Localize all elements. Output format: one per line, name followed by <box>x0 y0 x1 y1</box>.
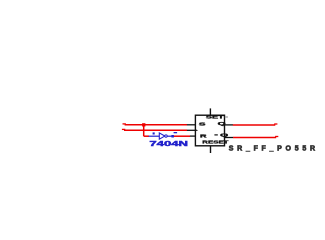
svg-text:R: R <box>200 134 207 139</box>
wire input B left end hook <box>122 128 125 130</box>
pin stub middle <box>187 129 196 131</box>
inverter U1 bubble <box>165 135 167 137</box>
junction dot A-branch <box>142 123 145 126</box>
pin stub S <box>187 124 196 126</box>
wire inverter output to R pin <box>174 135 190 137</box>
clock-style tick at middle pin <box>195 129 198 131</box>
wire branch horizontal to inverter input <box>144 135 149 137</box>
wire input B horizontal to middle pin <box>124 129 187 131</box>
wire output Q <box>233 124 275 126</box>
svg-text:7404N: 7404N <box>149 141 188 148</box>
svg-text:S: S <box>199 122 206 127</box>
wire vertical branch to inverter <box>143 125 145 136</box>
pin label -Q dash <box>214 134 217 135</box>
svg-text:SET: SET <box>206 115 225 120</box>
inverter U1 output stub <box>167 135 174 137</box>
wire output Q-bar right end hook <box>275 136 278 138</box>
wire output Q-bar <box>233 137 276 139</box>
inverter U1 input stub <box>149 135 160 137</box>
pin number 2 <box>174 132 178 133</box>
svg-text:RESET: RESET <box>202 139 229 144</box>
wire output Q right end hook <box>274 123 277 125</box>
wire input A horizontal to S pin <box>125 124 187 126</box>
flip-flop U2 body <box>195 115 224 146</box>
junction dot at inverter output <box>171 135 174 138</box>
wire input A left end hook <box>123 123 126 125</box>
inverter U1 triangle <box>159 133 165 139</box>
pin stub Q <box>225 124 233 126</box>
pin stub Q-bar <box>225 137 234 139</box>
gray dash after SET <box>225 116 228 117</box>
pin stub R <box>190 135 196 137</box>
pin number 1 <box>153 132 155 134</box>
top stub <box>209 108 211 115</box>
bottom stub <box>210 146 212 154</box>
svg-text:SR_FF_PO55R: SR_FF_PO55R <box>229 146 315 153</box>
